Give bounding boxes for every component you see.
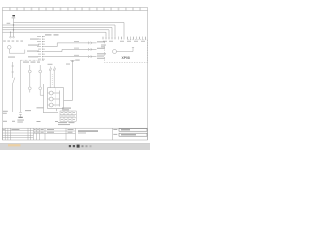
svg-text:XP08: XP08: [122, 56, 130, 60]
